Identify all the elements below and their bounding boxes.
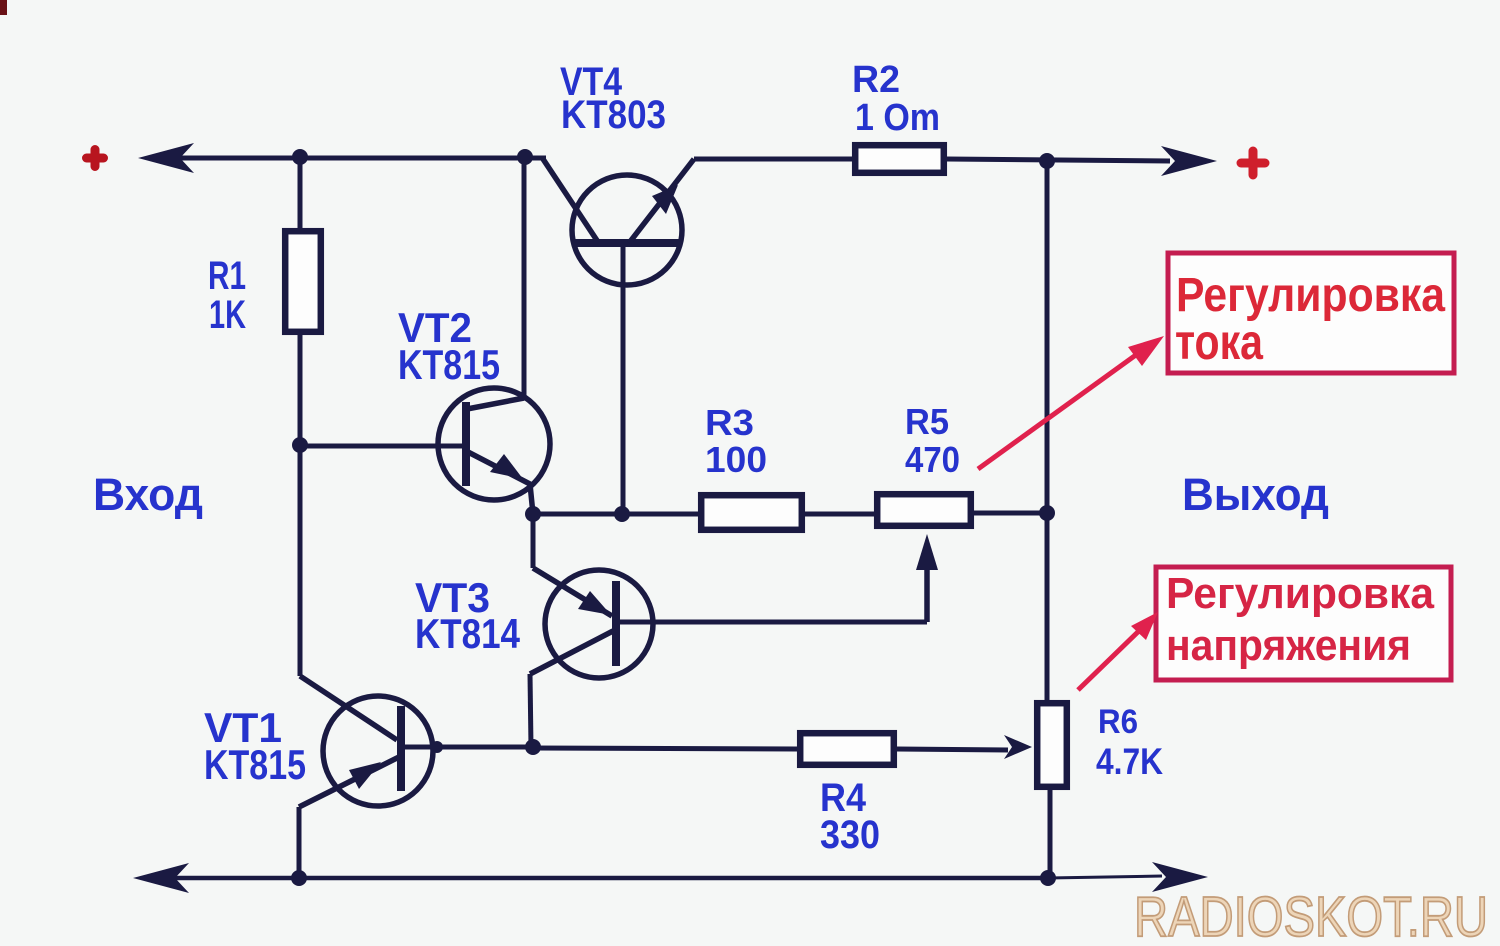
svg-text:KT815: KT815 <box>398 341 500 388</box>
photo corner mark <box>0 0 7 15</box>
wire VT3 base inner <box>616 620 653 625</box>
node junction R5 right rail <box>1039 505 1055 521</box>
wire VT4 collector diagonal <box>543 159 600 245</box>
transistor VT1 emitter with arrow <box>299 757 399 807</box>
svg-text:R3: R3 <box>705 402 754 443</box>
arrowhead top-right <box>1161 146 1217 176</box>
transistor VT4 base bar <box>574 239 681 247</box>
wire VT4 base lead down <box>621 243 626 514</box>
node junction bottom-right <box>1040 870 1056 886</box>
transistor VT1 circle <box>323 696 433 806</box>
plus symbol right output <box>1241 151 1265 175</box>
potentiometer R5 wiper arrow <box>916 534 938 622</box>
blue labels <box>93 59 1329 857</box>
svg-text:Регулировка: Регулировка <box>1166 569 1435 618</box>
transistor VT2 circle <box>438 388 550 500</box>
wire top rail to R2 <box>694 157 852 162</box>
wire VT3 collector down <box>530 674 531 747</box>
resistor R1 <box>285 231 321 332</box>
svg-text:R5: R5 <box>905 401 949 442</box>
wire VT2 collector up to top rail <box>522 157 527 398</box>
wire junction to R4 <box>533 748 797 749</box>
transistor VT2 emitter with arrow <box>468 452 533 514</box>
svg-text:RADIOSKOT.RU: RADIOSKOT.RU <box>1134 885 1488 946</box>
wire VT3 base to R5 wiper <box>653 620 927 625</box>
wire bottom rail <box>148 876 1048 881</box>
node junction VT4 base / wire <box>614 506 630 522</box>
svg-text:R1: R1 <box>208 254 246 298</box>
node junction left rail / VT2 base <box>292 437 308 453</box>
transistor VT4 emitter with arrow <box>629 159 694 243</box>
svg-text:напряжения: напряжения <box>1166 621 1411 670</box>
transistor VT1 collector diagonal <box>300 676 397 740</box>
svg-text:470: 470 <box>905 439 960 480</box>
node junction top-middle <box>517 149 533 165</box>
svg-text:тока: тока <box>1175 314 1264 370</box>
wire middle to R3 <box>533 512 698 517</box>
svg-text:330: 330 <box>820 813 880 857</box>
transistor VT3 emitter with arrow <box>533 568 612 616</box>
potentiometer R6 <box>1037 703 1067 787</box>
svg-text:1K: 1K <box>209 293 246 337</box>
wire R5 to right rail <box>974 511 1047 516</box>
arrowhead bottom-left <box>133 863 189 893</box>
transistor VT3 circle <box>545 570 653 678</box>
node junction VT1 base / VT3 collector / R4 <box>525 739 541 755</box>
wire VT1 emitter down to bottom rail <box>297 807 302 878</box>
resistor R4 <box>800 733 894 765</box>
svg-text:KT814: KT814 <box>415 610 521 657</box>
potentiometer R6 wiper arrow <box>1004 735 1032 759</box>
wire left rail upper <box>298 157 303 228</box>
transistor VT3 base bar <box>612 581 620 666</box>
transistor VT1 base bar <box>397 706 405 791</box>
wire left rail middle <box>298 335 303 676</box>
annotation box voltage adjust <box>1156 567 1451 680</box>
resistor R2 <box>855 145 944 173</box>
svg-text:Выход: Выход <box>1182 469 1329 520</box>
node small VT1 base circle edge <box>431 741 443 753</box>
svg-text:Вход: Вход <box>93 469 203 520</box>
svg-text:R2: R2 <box>852 59 900 101</box>
potentiometer R5 <box>877 494 971 526</box>
wire VT2 collector diagonal <box>467 398 524 409</box>
arrowhead top-left <box>138 143 194 173</box>
wire top rail right <box>947 159 1170 161</box>
wire R3 to R5 <box>805 512 874 517</box>
resistor R3 <box>701 495 802 530</box>
wire right rail vertical <box>1045 161 1050 701</box>
transistor VT2 base bar <box>462 402 470 486</box>
node junction emitter VT2 / wire <box>525 506 541 522</box>
svg-text:100: 100 <box>705 439 767 480</box>
arrowhead bottom-right <box>1152 862 1208 892</box>
node junction top-right <box>1039 153 1055 169</box>
svg-text:1 Om: 1 Om <box>855 97 940 139</box>
transistor VT4 circle <box>572 175 682 285</box>
wire VT2 emitter to VT3 emitter <box>531 514 536 568</box>
node junction top-left rail <box>292 149 308 165</box>
svg-text:4.7K: 4.7K <box>1096 741 1163 782</box>
wire VT1 base to junction <box>401 745 533 750</box>
annotation arrow voltage adjust <box>1078 612 1158 690</box>
plus symbol left input <box>87 150 104 167</box>
svg-text:R6: R6 <box>1098 703 1138 741</box>
wire top rail left <box>150 156 546 161</box>
wire VT2 base <box>300 444 466 449</box>
wire VT3 collector diagonal <box>530 631 613 674</box>
svg-text:KT815: KT815 <box>204 741 306 788</box>
annotation arrow current adjust <box>978 336 1164 469</box>
annotation box current adjust <box>1168 253 1454 373</box>
wire R4 to R6 wiper <box>897 749 1008 750</box>
wire bottom rail right segment <box>1048 876 1162 878</box>
svg-text:KT803: KT803 <box>561 93 666 137</box>
wire right rail below R6 <box>1048 789 1053 878</box>
node junction bottom-left <box>291 870 307 886</box>
